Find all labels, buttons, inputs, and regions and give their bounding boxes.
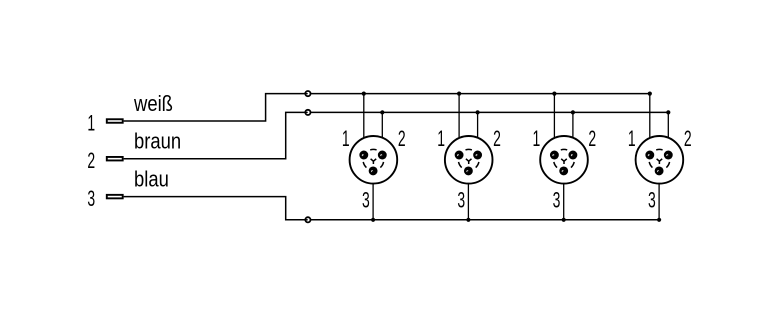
svg-text:2: 2 [588,126,596,151]
connector X1 body (M8 female face) [350,136,398,184]
svg-text:blau: blau [134,167,169,192]
connector X4 keying: dashed arc top [656,148,662,151]
svg-text:3: 3 [648,187,656,212]
connector X1 pin label 2 [398,126,406,151]
svg-text:1: 1 [628,126,636,151]
wire 1: weiß conductor to top bus [124,94,650,121]
connector X2 pin 1 [455,151,464,160]
connector X2 keying: dashed arc lower-left [459,162,462,168]
connector X1 center keyway mark [371,159,377,164]
wire: bus 1 down to X4 pin 1 [649,94,651,155]
connector X2 body (M8 female face) [445,136,493,184]
connector X4 keying: dashed arc lower-right [666,162,669,168]
junction dot on bus 1 above connector X2 pin 1 [457,92,461,96]
svg-text:3: 3 [87,186,95,211]
connector X2 pin label 1 [437,126,445,151]
connector X3 pin label 3 [553,187,561,212]
connector X4 pin label 3 [648,187,656,212]
junction dot on bus 3 below connector X1 pin 3 [371,218,375,222]
connector X2 pin label 3 [457,187,465,212]
connector X1 pin 3 [369,166,378,175]
svg-text:braun: braun [134,129,181,154]
junction dot on bus 3 below connector X4 pin 3 [657,218,661,222]
junction dot on bus 2 above connector X3 pin 2 [571,110,575,114]
connector X4 body (M8 female face) [636,136,684,184]
wire: X4 pin 3 down to bus 3 [658,171,660,220]
wire: bus 1 down to X1 pin 1 [363,94,365,155]
connector X1 pin 2 [378,151,387,160]
connection node (open circle) on bus 2 [305,110,310,115]
svg-text:3: 3 [457,187,465,212]
wire: X2 pin 3 down to bus 3 [467,171,469,220]
conductor number 2 [87,148,95,173]
connector X4 pin label 1 [628,126,636,151]
wire: X3 pin 3 down to bus 3 [563,171,565,220]
connector X2 keying: dashed arc lower-right [476,162,479,168]
connector X1 pin label 3 [362,187,370,212]
svg-text:3: 3 [553,187,561,212]
connector X4 keying: dashed arc lower-left [649,162,652,168]
svg-text:1: 1 [87,110,95,135]
wire: bus 2 down to X3 pin 2 [572,112,574,155]
connector X4 pin label 2 [684,126,692,151]
connector X4 pin 2 [664,151,673,160]
svg-text:1: 1 [533,126,541,151]
junction dot on bus 2 above connector X1 pin 2 [380,110,384,114]
connector X1 keying: dashed arc top [370,148,376,151]
wire 3: blau conductor to bottom bus [124,197,660,220]
svg-text:2: 2 [87,148,95,173]
wire: bus 1 down to X2 pin 1 [458,94,460,155]
svg-text:2: 2 [493,126,501,151]
connector X3 keying: dashed arc lower-left [554,162,557,168]
svg-text:2: 2 [684,126,692,151]
svg-text:1: 1 [342,126,350,151]
svg-text:2: 2 [398,126,406,151]
connector X3 body (M8 female face) [540,136,588,184]
junction dot on bus 1 above connector X1 pin 1 [362,92,366,96]
wire label "blau" [134,167,169,192]
conductor number 1 [87,110,95,135]
connector X3 pin 1 [550,151,559,160]
connection node (open circle) on bus 3 [305,217,310,222]
junction dot on bus 2 above connector X2 pin 2 [476,110,480,114]
junction dot on bus 2 above connector X4 pin 2 [666,110,670,114]
wire 2: braun conductor to middle bus [124,112,669,158]
wire: bus 2 down to X2 pin 2 [477,112,479,155]
connector X2 pin label 2 [493,126,501,151]
connector X3 keying: dashed arc top [561,148,567,151]
wire: bus 2 down to X4 pin 2 [667,112,669,155]
wire: bus 2 down to X1 pin 2 [381,112,383,155]
terminal lug of conductor 2 [107,157,123,161]
connector X1 pin 1 [359,151,368,160]
connector X3 keying: dashed arc lower-right [571,162,574,168]
connector X4 pin 3 [655,166,664,175]
connector X1 keying: dashed arc lower-left [363,162,366,168]
conductor number 3 [87,186,95,211]
wire: X1 pin 3 down to bus 3 [372,171,374,220]
connector X3 pin 2 [568,151,577,160]
wire: bus 1 down to X3 pin 1 [553,94,555,155]
connector X4 center keyway mark [657,159,663,164]
svg-text:3: 3 [362,187,370,212]
junction dot on bus 1 above connector X4 pin 1 [648,92,652,96]
junction dot on bus 3 below connector X2 pin 3 [466,218,470,222]
connector X3 center keyway mark [561,159,567,164]
wire label "braun" [134,129,181,154]
connector X2 pin 3 [464,166,473,175]
svg-text:weiß: weiß [133,91,173,116]
connector X2 center keyway mark [466,159,472,164]
connector X2 keying: dashed arc top [465,148,471,151]
junction dot on bus 1 above connector X3 pin 1 [552,92,556,96]
connector X2 pin 2 [473,151,482,160]
connector X1 keying: dashed arc lower-right [380,162,383,168]
connector X3 pin label 2 [588,126,596,151]
connector X3 pin 3 [559,166,568,175]
terminal lug of conductor 3 [107,195,123,199]
wire label "weiß" [133,91,173,116]
junction dot on bus 3 below connector X3 pin 3 [562,218,566,222]
connector X4 pin 1 [645,151,654,160]
connection node (open circle) on bus 1 [305,91,310,96]
terminal lug of conductor 1 [107,119,123,123]
connector X1 pin label 1 [342,126,350,151]
connector X3 pin label 1 [533,126,541,151]
svg-text:1: 1 [437,126,445,151]
